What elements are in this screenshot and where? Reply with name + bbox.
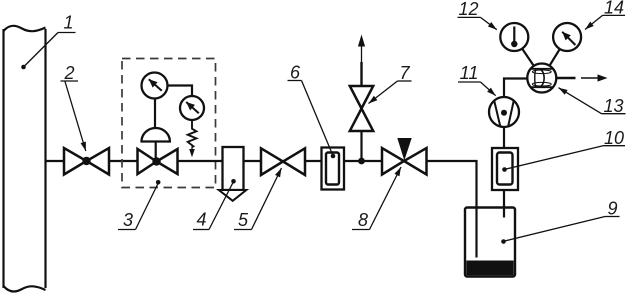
stem dome to gauge — [154, 99, 156, 129]
label 3 — [118, 180, 161, 230]
wire: valve 2 to regulator — [109, 160, 138, 162]
stem dome to valve — [155, 142, 157, 161]
wire: indicator 10 to aspirator 11 — [503, 127, 505, 148]
wire: aspirator to meter 13 — [504, 79, 527, 98]
wire: pipe to valve 2 — [46, 160, 65, 162]
flow indicator (item 6) — [322, 148, 345, 190]
wire: vessel to indicator 10 — [503, 190, 505, 218]
wire: vent riser — [360, 131, 362, 161]
regulator valve body (item 3) — [138, 149, 178, 174]
wire: meter outlet with flow arrow — [556, 77, 575, 79]
svg-text:6: 6 — [290, 63, 301, 83]
label 14 — [585, 0, 625, 30]
filter (item 4) — [223, 147, 244, 190]
gas meter (item 13) — [527, 64, 556, 93]
valve 2 (shut-off valve) — [64, 148, 109, 175]
valve 5 (shut-off valve) — [261, 148, 305, 175]
svg-text:12: 12 — [458, 0, 478, 19]
pipe main (item 1, vertical pipe with break lines) — [4, 26, 46, 292]
actuator diaphragm dome — [142, 128, 170, 141]
svg-text:10: 10 — [604, 128, 624, 148]
node tee junction — [358, 158, 365, 165]
gauge (item 14) — [553, 23, 581, 51]
label 7 — [369, 63, 412, 104]
label 13 — [559, 88, 626, 116]
wire: meter 12 link — [522, 49, 534, 66]
svg-text:9: 9 — [607, 199, 617, 219]
svg-text:3: 3 — [123, 210, 133, 230]
label 9 — [501, 199, 619, 244]
gauge (small, setpoint) — [180, 96, 204, 120]
label 6 — [288, 63, 336, 159]
valve 7 (vent valve, vertical) — [350, 86, 373, 131]
valve 8 (needle/control valve) — [382, 148, 427, 175]
label 11 — [458, 63, 496, 96]
label 12 — [458, 0, 497, 30]
gauge (big, in regulator group) — [142, 73, 168, 99]
svg-text:1: 1 — [63, 13, 73, 33]
svg-text:11: 11 — [460, 63, 479, 83]
svg-text:7: 7 — [399, 63, 410, 83]
svg-text:8: 8 — [358, 210, 368, 230]
wire: regulator to filter — [178, 160, 223, 162]
svg-text:13: 13 — [603, 96, 623, 116]
wire: meter 14 link — [550, 49, 560, 65]
wire: gauge link — [168, 86, 193, 97]
svg-text:4: 4 — [196, 210, 206, 230]
wire: vent line with arrow to atmosphere — [360, 62, 362, 86]
svg-text:2: 2 — [63, 63, 74, 83]
dip tube — [475, 208, 477, 258]
svg-text:5: 5 — [238, 210, 249, 230]
wire: indicator 6 to valve 8 with tee — [344, 160, 382, 162]
label 4 — [193, 179, 236, 230]
wire: filter to valve 5 — [244, 160, 262, 162]
label 8 — [352, 167, 401, 230]
thermometer (item 12) — [500, 23, 528, 51]
wire: valve 8 to vessel drop — [427, 161, 477, 258]
label 5 — [234, 168, 282, 230]
vessel (item 9, absorber with liquid) — [465, 208, 515, 277]
aspirator pump (item 11) — [489, 97, 519, 127]
flow indicator (item 10) — [492, 148, 518, 190]
wire: valve 5 to indicator 6 — [305, 160, 322, 162]
spring with arrow to line — [188, 120, 197, 147]
label 1 — [21, 13, 75, 70]
dashed boundary (item 3 group) — [122, 59, 216, 188]
label 2 — [61, 63, 86, 151]
label 10 — [502, 128, 625, 172]
